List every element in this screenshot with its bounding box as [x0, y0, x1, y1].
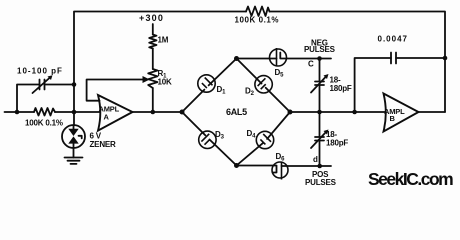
svg-text:100K 0.1%: 100K 0.1%: [25, 119, 63, 128]
svg-text:PULSES: PULSES: [304, 45, 336, 54]
svg-text:AMPL: AMPL: [99, 105, 120, 114]
svg-text:C: C: [308, 60, 314, 69]
svg-text:6AL5: 6AL5: [226, 107, 247, 117]
svg-text:SeekIC.com: SeekIC.com: [368, 169, 453, 189]
svg-text:10-100 pF: 10-100 pF: [17, 67, 63, 76]
svg-text:B: B: [390, 114, 396, 123]
svg-text:ZENER: ZENER: [90, 140, 117, 149]
svg-text:d: d: [313, 155, 318, 164]
svg-text:180pF: 180pF: [326, 139, 348, 148]
svg-text:0.0047: 0.0047: [378, 35, 408, 44]
svg-text:1M: 1M: [158, 36, 169, 45]
svg-text:+300: +300: [139, 13, 164, 23]
svg-text:100K 0.1%: 100K 0.1%: [235, 16, 280, 25]
svg-text:A: A: [104, 113, 110, 122]
svg-text:180pF: 180pF: [330, 84, 352, 93]
svg-text:PULSES: PULSES: [305, 178, 337, 187]
svg-text:10K: 10K: [158, 78, 172, 87]
